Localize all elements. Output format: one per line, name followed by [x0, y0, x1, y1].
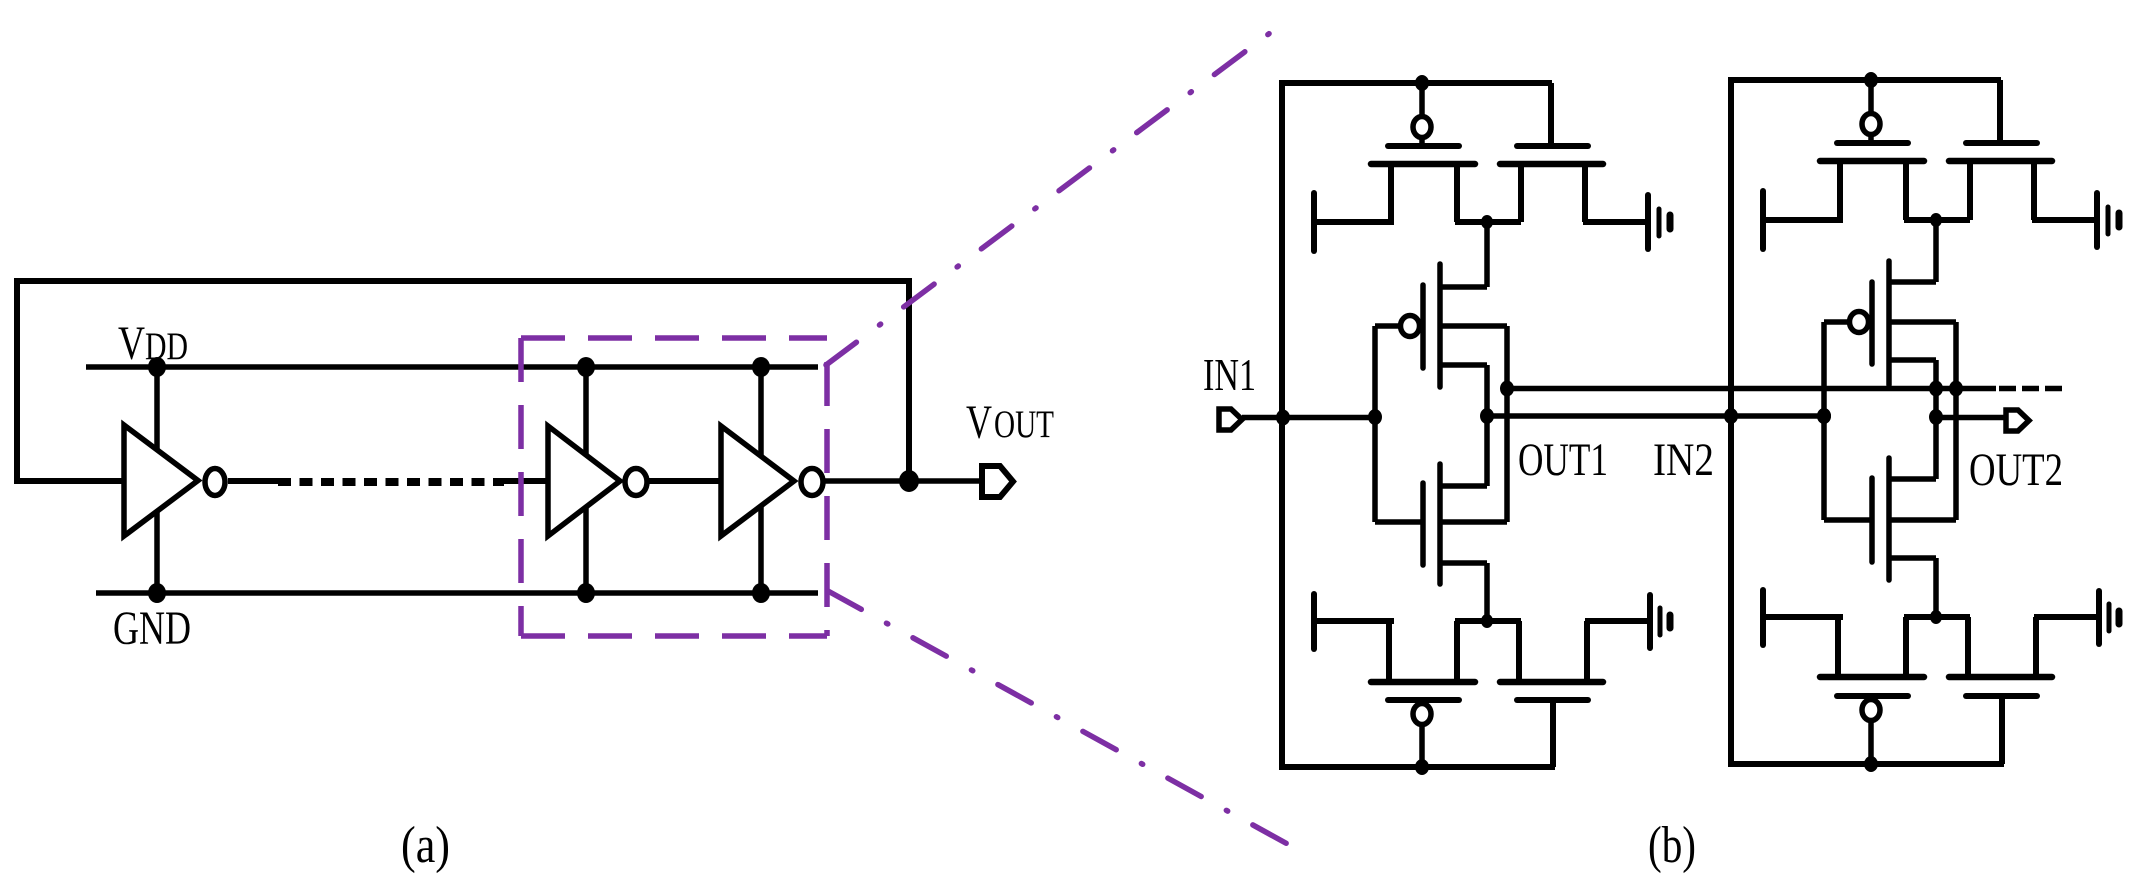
cell1 wire: top-left source lead — [1314, 219, 1394, 225]
cell2 transistor N2b source drop — [1965, 617, 1971, 677]
cell2 transistor N2a gate bubble — [1862, 700, 1880, 721]
cell1 transistor M1p channel bar — [1437, 264, 1443, 387]
cell1 terminal symbol bottom-right bar1 — [1647, 595, 1653, 648]
cell2 wire: N2b gate to bottom rail — [1999, 696, 2005, 764]
cell1 terminal symbol top-right bar3 — [1667, 215, 1674, 229]
cell2 node: top rail junction — [1864, 72, 1878, 88]
wire: OUT1 to IN2 (lower line) — [1487, 413, 1824, 419]
zoom box bottom edge — [521, 633, 827, 639]
wire: bulk line continuation — [1957, 386, 1996, 392]
cell1 node: bottom middle junction — [1481, 614, 1493, 628]
wire: U1 VDD/GND feed vertical — [154, 367, 160, 593]
cell1 wire: M1p bulk stub — [1442, 323, 1507, 329]
cell2 transistor N2b channel bar — [1949, 674, 2052, 681]
cell2 transistor N2b gate bar — [1966, 693, 2037, 699]
wire: feedback loop top segment — [14, 278, 912, 284]
cell1 transistor M1p gate bar — [1420, 285, 1426, 368]
inverter U2 triangle — [548, 426, 620, 536]
cell2 node: input junction — [1817, 408, 1831, 424]
cell1 transistor M1n channel bar — [1437, 464, 1443, 584]
cell1 transistor N1a gate bar — [1388, 697, 1459, 703]
svg-text:OUT: OUT — [994, 403, 1054, 446]
cell2 wire: M2p source vertical — [1933, 220, 1939, 282]
zoom leader line lower (dash-dot) — [828, 591, 1302, 852]
cell2 terminal symbol bottom-right bar2 — [2107, 604, 2112, 631]
cell2 transistor M2p gate bar — [1869, 282, 1875, 364]
cell1 wire: M1p source vertical — [1484, 222, 1490, 287]
cell2 transistor M2n channel bar — [1886, 458, 1892, 580]
cell1 transistor P1a source drop — [1388, 164, 1394, 222]
svg-text:V: V — [118, 317, 145, 370]
node: U3 GND junction — [752, 583, 770, 603]
wire: U2 output to U3 input — [649, 478, 724, 484]
wire: OUT2 to output terminal — [1936, 415, 2005, 421]
cell1 wire: bottom middle lead — [1455, 618, 1521, 624]
cell2 node: bottom middle junction — [1930, 610, 1942, 624]
svg-text:OUT1: OUT1 — [1518, 434, 1608, 486]
wire: IN1 to cell1 gate column — [1242, 415, 1375, 421]
svg-text:IN1: IN1 — [1203, 349, 1256, 400]
node: IN2 at cell2 gate column — [1817, 408, 1831, 424]
wire: U3 output to VOUT terminal — [825, 478, 980, 484]
cell1 node: bottom rail junction — [1415, 759, 1429, 775]
inverter U2 output bubble — [625, 469, 647, 496]
cell1 transistor N1a source drop — [1386, 621, 1392, 682]
cell1 terminal bar top-left — [1311, 193, 1317, 251]
VDD rail — [86, 364, 818, 370]
cell2 transistor N2b drain drop — [2033, 617, 2039, 677]
cell1 wire: input gate column vertical — [1372, 326, 1378, 522]
cell1 transistor P1a channel bar — [1371, 161, 1475, 168]
cell2 wire: bubble to bottom rail — [1868, 720, 1874, 764]
cell2 transistor M2p channel bar — [1886, 261, 1892, 385]
cell2 wire: bottom middle lead — [1904, 614, 1970, 620]
cell2 wire: top-right lead — [2032, 217, 2097, 223]
node: U3 VDD junction — [752, 357, 770, 377]
cell2 transistor M2p gate bubble — [1850, 312, 1869, 333]
cell1 wire: M1p drain stub — [1442, 362, 1487, 368]
cell1 wire: top junction to bubble — [1419, 83, 1425, 117]
cell1 wire: bubble to P1a gate — [1419, 137, 1425, 146]
cell2 wire: top junction to bubble — [1868, 80, 1874, 114]
cell1 transistor P1b channel bar — [1500, 161, 1603, 168]
cell1 node: top rail junction — [1415, 75, 1429, 91]
node: U2 VDD junction — [577, 357, 595, 377]
cell2 terminal symbol top-right bar3 — [2116, 213, 2123, 227]
svg-text:(a): (a) — [401, 817, 450, 874]
cell1 wire: bottom supply rail — [1279, 764, 1555, 770]
cell1 wire: M1n source stub — [1442, 560, 1487, 566]
cell1 wire: M1p bubble to gate column — [1375, 323, 1401, 329]
cell1 wire: top rail to P1b gate — [1548, 83, 1554, 146]
cell1 wire: gate column to M1n gate — [1375, 519, 1421, 525]
zoom box top edge — [521, 335, 827, 341]
cell1 transistor N1a gate bubble — [1413, 704, 1431, 725]
cell2 transistor P2b gate bar — [1966, 140, 2037, 146]
zoom box right edge — [824, 362, 830, 636]
cell2 transistor P2b channel bar — [1949, 158, 2052, 165]
cell1 transistor P1a gate bubble — [1413, 117, 1431, 138]
wire: feedback input wire to inverter U1 — [14, 478, 127, 484]
cell1 terminal bar bottom-left — [1311, 594, 1317, 649]
zoom leader line upper (dash-dot) — [826, 18, 1290, 365]
cell2 wire: top rail to P2b gate — [1997, 80, 2003, 143]
OUT2 output terminal arrow — [2006, 410, 2029, 431]
cell1 transistor P1a drain drop — [1454, 164, 1460, 222]
cell2 wire: M2n source vertical — [1933, 558, 1939, 617]
VOUT output terminal arrow — [982, 466, 1013, 497]
cell2 transistor N2a source drop — [1835, 617, 1841, 677]
cell1 wire: bottom-right lead — [1585, 618, 1650, 624]
wire: U1 output solid segment — [228, 478, 278, 484]
inverter U3 triangle — [721, 426, 794, 536]
cell1 wire: M1n drain stub — [1442, 483, 1487, 489]
cell2 terminal bar top-left — [1760, 191, 1766, 249]
svg-text:OUT2: OUT2 — [1969, 444, 2063, 496]
cell2 wire: M2p bulk stub — [1891, 319, 1956, 325]
cell2 transistor P2b drain drop — [2031, 161, 2037, 220]
cell2 node: top middle junction — [1930, 213, 1942, 227]
cell2 transistor P2a channel bar — [1820, 158, 1924, 165]
cell2 transistor P2a source drop — [1837, 161, 1843, 220]
cell1 wire: bottom-left lead — [1314, 618, 1394, 624]
cell2 transistor P2a drain drop — [1903, 161, 1909, 220]
cell1 node: top middle junction — [1481, 215, 1493, 229]
cell2 terminal symbol bottom-right bar3 — [2116, 611, 2123, 624]
cell1 transistor M1n gate bar — [1420, 483, 1426, 565]
cell2 terminal symbol top-right bar1 — [2094, 193, 2100, 247]
cell1 wire: top middle lead — [1455, 219, 1521, 225]
cell2 transistor N2a drain drop — [1903, 617, 1909, 677]
cell2 wire: bottom supply rail — [1728, 761, 2004, 767]
inverter U3 output bubble — [801, 469, 823, 496]
cell2 transistor P2a gate bar — [1837, 140, 1908, 146]
cell1 wire: M1p source stub — [1440, 284, 1487, 290]
node: cell2 drain on bulk line — [1929, 381, 1943, 397]
cell1 terminal symbol top-right bar2 — [1657, 209, 1662, 236]
cell2 wire: top supply rail — [1728, 77, 2001, 83]
node: U2 GND junction — [577, 583, 595, 603]
cell1 wire: left boundary vertical — [1279, 80, 1285, 770]
cell2 wire: M2p source stub — [1889, 279, 1936, 285]
cell2 wire: top middle lead — [1904, 217, 1970, 223]
cell2 transistor M2n gate bar — [1869, 478, 1875, 562]
cell1 wire: bubble to bottom rail — [1419, 724, 1425, 767]
cell2 transistor N2a gate bar — [1837, 693, 1908, 699]
cell2 wire: M2n bulk stub — [1891, 517, 1956, 523]
cell1 wire: bulk column vertical — [1504, 326, 1510, 522]
svg-text:V: V — [966, 396, 992, 449]
cell1 wire: top supply rail — [1279, 80, 1552, 86]
node: IN1 at cell1 boundary — [1276, 410, 1290, 426]
cell1 transistor N1b channel bar — [1500, 679, 1603, 686]
svg-text:IN2: IN2 — [1653, 434, 1714, 486]
cell1 wire: drain column vertical — [1484, 365, 1490, 486]
node: cell1 bulk line junction — [1500, 381, 1514, 397]
cell2 wire: bulk column vertical — [1953, 322, 1959, 520]
cell1 wire: M1n source vertical — [1484, 563, 1490, 621]
cell2 terminal bar bottom-left — [1760, 590, 1766, 645]
cell1 transistor M1p gate bubble — [1401, 316, 1420, 337]
cell2 wire: bubble to P2a gate — [1868, 134, 1874, 143]
node: cell1 output junction — [1480, 408, 1494, 424]
cell2 transistor P2a gate bubble — [1862, 114, 1880, 135]
cell2 wire: gate column to M2n gate — [1824, 517, 1870, 523]
wire: U2 VDD/GND feed vertical — [583, 367, 589, 593]
wire: feedback loop right vertical to VOUT node — [906, 278, 912, 481]
cell1 transistor P1b gate bar — [1517, 143, 1588, 149]
svg-text:GND: GND — [113, 602, 191, 655]
node: VOUT junction — [899, 470, 919, 492]
wire: feedback loop left vertical — [14, 278, 20, 481]
cell1 terminal symbol bottom-right bar3 — [1667, 615, 1674, 628]
cell1 wire: N1b gate to bottom rail — [1550, 700, 1556, 767]
cell1 wire: top-right lead — [1583, 219, 1648, 225]
cell2 terminal symbol top-right bar2 — [2106, 207, 2111, 234]
cell2 wire: M2n drain stub — [1891, 476, 1936, 482]
wire: dotted continuation (omitted inverters) — [278, 478, 504, 486]
cell2 wire: top-left source lead — [1763, 217, 1843, 223]
GND rail — [96, 590, 818, 596]
cell2 wire: M2p drain stub — [1891, 357, 1936, 363]
IN1 input terminal arrow — [1219, 409, 1242, 430]
node: OUT1 at cell2 boundary — [1724, 408, 1738, 424]
cell1 transistor P1b drain drop — [1582, 164, 1588, 222]
cell2 terminal symbol bottom-right bar1 — [2096, 591, 2102, 644]
cell1 transistor N1b source drop — [1516, 621, 1522, 682]
cell2 wire: bottom-right lead — [2034, 614, 2099, 620]
cell2 node: bottom rail junction — [1864, 756, 1878, 772]
svg-text:(b): (b) — [1648, 817, 1696, 874]
cell2 wire: left boundary vertical — [1728, 77, 1734, 767]
cell2 transistor P2b source drop — [1967, 161, 1973, 220]
node: cell2 bulk line junction — [1949, 381, 1963, 397]
cell1 transistor N1b drain drop — [1584, 621, 1590, 682]
wire: bulk line OUT1 upper — [1507, 386, 1957, 392]
wire: U3 VDD/GND feed vertical — [758, 367, 764, 593]
cell2 wire: bottom-left lead — [1763, 614, 1843, 620]
zoom box left edge — [518, 338, 524, 636]
cell1 wire: M1n bulk stub — [1442, 519, 1507, 525]
node: U1 GND junction — [148, 583, 166, 603]
cell2 wire: M2p bubble to gate column — [1824, 319, 1850, 325]
wire: dashed continuation to next stage — [1999, 386, 2062, 392]
inverter U1 output bubble — [205, 469, 225, 496]
cell2 wire: M2n source stub — [1891, 555, 1936, 561]
cell2 transistor N2a channel bar — [1820, 674, 1924, 681]
cell1 transistor P1a gate bar — [1388, 143, 1459, 149]
cell1 transistor N1b gate bar — [1517, 697, 1588, 703]
wire: solid segment into inverter U2 — [502, 478, 550, 484]
cell1 transistor N1a drain drop — [1454, 621, 1460, 682]
inverter U1 triangle — [124, 425, 198, 536]
cell2 wire: input gate column vertical — [1821, 322, 1827, 520]
node: U1 VDD junction — [148, 357, 166, 377]
cell1 node: input junction — [1368, 409, 1382, 425]
node: cell2 output junction — [1929, 409, 1943, 425]
cell2 wire: drain column vertical — [1933, 360, 1939, 479]
cell1 terminal symbol top-right bar1 — [1645, 195, 1651, 249]
cell1 terminal symbol bottom-right bar2 — [1658, 608, 1663, 635]
cell1 transistor P1b source drop — [1518, 164, 1524, 222]
cell1 transistor N1a channel bar — [1371, 679, 1475, 686]
